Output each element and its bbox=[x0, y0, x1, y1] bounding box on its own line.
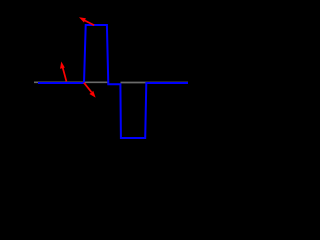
red arrow A1 (steep, head up, at axis left of rising edge) bbox=[60, 62, 66, 82]
waveform (blue square wave: positive pulse then negative pulse) bbox=[38, 25, 188, 138]
x-axis (gray horizontal line) bbox=[34, 81, 188, 83]
red arrow A2 (head up-left, at top of positive pulse) bbox=[79, 17, 94, 25]
red arrow A3 (head down-right, below axis at rising-edge corner) bbox=[84, 83, 96, 98]
